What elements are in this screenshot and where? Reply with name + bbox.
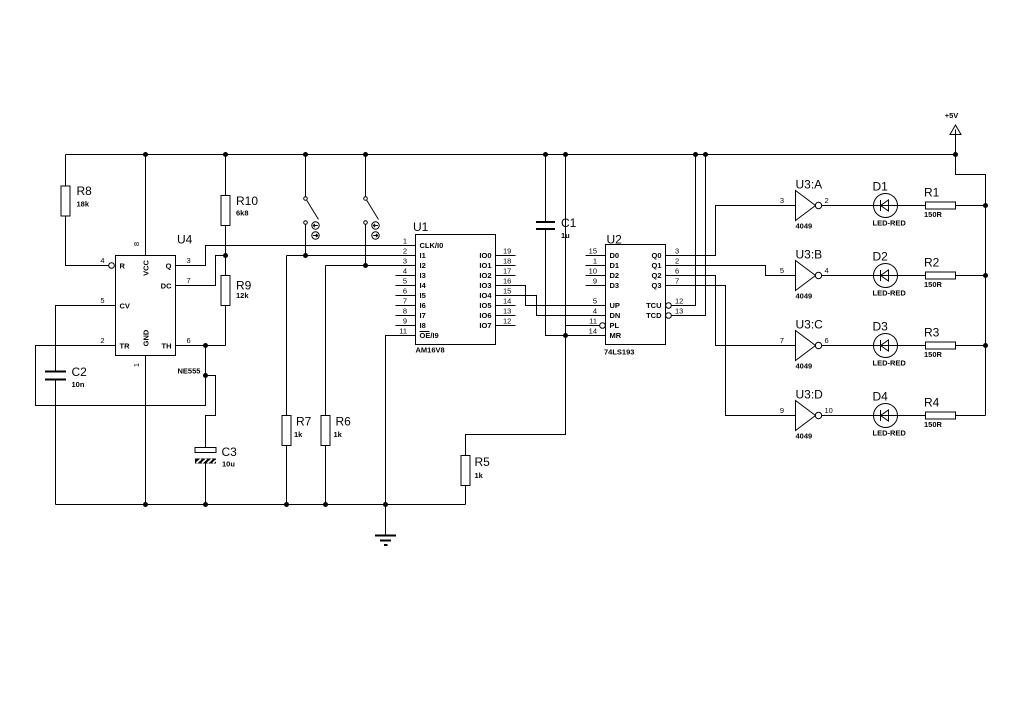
resistor R3 150R	[924, 326, 956, 360]
svg-text:3: 3	[780, 196, 784, 205]
junction	[203, 502, 208, 507]
switch SW2 top lead	[365, 155, 367, 197]
svg-text:6: 6	[403, 287, 407, 296]
svg-text:IO4: IO4	[479, 291, 492, 300]
svg-text:2: 2	[100, 336, 104, 345]
wire R4 to +5V column	[956, 415, 986, 417]
svg-text:R8: R8	[77, 184, 93, 198]
svg-text:PL: PL	[610, 321, 620, 330]
junction TH/TR/C3 node	[203, 373, 208, 378]
wire R10 top lead	[225, 155, 227, 196]
wire R10 bottom to node	[225, 226, 227, 276]
svg-text:LED-RED: LED-RED	[873, 429, 907, 438]
wire +5V to U2 PL	[566, 155, 600, 326]
svg-text:LED-RED: LED-RED	[873, 359, 907, 368]
wire D1 to R1	[898, 205, 926, 207]
svg-text:1k: 1k	[334, 430, 343, 439]
inverter U3:D 4049	[796, 388, 824, 441]
svg-text:5: 5	[593, 297, 597, 306]
wire SW2 bottom lead	[365, 224, 367, 265]
wire SW1 bottom lead	[305, 224, 307, 255]
svg-text:4: 4	[100, 256, 104, 265]
U4 reset pin inversion bubble	[109, 263, 115, 269]
ground	[375, 505, 396, 546]
svg-text:VCC: VCC	[142, 260, 151, 276]
U1 left pin numbers	[399, 237, 407, 336]
svg-text:Q1: Q1	[651, 261, 661, 270]
svg-text:D0: D0	[610, 251, 620, 260]
junction R10/R9/DC node	[223, 253, 228, 258]
switch SW2 actuator arrows	[372, 222, 379, 239]
svg-text:NE555: NE555	[178, 367, 201, 376]
svg-text:6k8: 6k8	[236, 209, 249, 218]
wire U4 DC to R10/R9 node	[176, 256, 226, 286]
wire I1 row to U1	[287, 255, 416, 257]
svg-text:4049: 4049	[796, 432, 813, 441]
svg-text:9: 9	[593, 277, 597, 286]
svg-text:10: 10	[589, 267, 597, 276]
svg-text:1k: 1k	[475, 471, 484, 480]
svg-text:12: 12	[675, 297, 683, 306]
resistor R7 1k	[282, 415, 312, 446]
svg-text:U4: U4	[177, 233, 193, 247]
svg-text:U3:B: U3:B	[796, 248, 823, 262]
svg-text:GND: GND	[142, 329, 151, 346]
junction ground node	[383, 502, 388, 507]
wire VCC pin 8 of U4	[145, 155, 147, 256]
svg-text:3: 3	[675, 247, 679, 256]
resistor R10 6k8	[221, 194, 258, 226]
wire D3 to R3	[898, 345, 926, 347]
U3:B pin numbers	[780, 266, 829, 275]
svg-text:IO2: IO2	[479, 271, 491, 280]
svg-text:R4: R4	[924, 396, 940, 410]
inverter U3:A 4049	[796, 178, 823, 231]
junction TH node	[203, 343, 208, 348]
svg-text:7: 7	[675, 277, 679, 286]
svg-text:IO7: IO7	[479, 321, 491, 330]
wire R7 bottom lead	[286, 446, 288, 505]
svg-text:I4: I4	[420, 281, 427, 290]
svg-text:7: 7	[187, 276, 191, 285]
junction	[983, 343, 988, 348]
capacitor C2 10n	[45, 365, 87, 389]
U3:C pin numbers	[780, 336, 829, 345]
wire R2 to +5V column	[956, 275, 986, 277]
svg-text:R10: R10	[236, 194, 258, 208]
junction	[363, 152, 368, 157]
wire R7 top lead	[286, 256, 288, 416]
svg-text:R1: R1	[924, 186, 940, 200]
U4 pin numbers	[100, 242, 190, 367]
wire R1 to +5V column	[956, 205, 986, 207]
wire U4 TH to R9 bottom	[176, 345, 226, 347]
svg-text:4049: 4049	[796, 222, 813, 231]
wire TH node down	[205, 346, 207, 376]
svg-text:12k: 12k	[236, 291, 249, 300]
svg-text:5: 5	[403, 277, 407, 286]
IC U1 AM16V8 body	[413, 220, 496, 355]
wire C2 bottom to ground rail	[55, 381, 57, 505]
svg-text:3: 3	[187, 256, 191, 265]
svg-text:14: 14	[503, 297, 511, 306]
U2 left pin numbers	[589, 247, 597, 336]
svg-text:I1: I1	[420, 251, 426, 260]
wire U2 Q0 to U3:A	[666, 206, 796, 256]
wire U3:C output to D3	[822, 345, 874, 347]
LED D1 LED-RED	[873, 180, 907, 228]
svg-text:R2: R2	[924, 256, 940, 270]
wire R8 to U4 reset pin	[66, 216, 109, 266]
svg-text:7: 7	[780, 336, 784, 345]
junction	[953, 152, 958, 157]
switch SW1 actuator arrows	[312, 222, 319, 239]
svg-text:LED-RED: LED-RED	[873, 289, 907, 298]
svg-text:TCU: TCU	[646, 301, 661, 310]
junction	[983, 203, 988, 208]
svg-text:7: 7	[403, 297, 407, 306]
svg-text:4: 4	[403, 267, 407, 276]
svg-text:IO5: IO5	[479, 301, 491, 310]
svg-text:D3: D3	[610, 281, 620, 290]
wire R6 top lead	[325, 266, 327, 416]
wire +5V feed to resistor column	[956, 155, 986, 416]
wire U1 IO3 to U2 UP	[496, 286, 606, 306]
svg-text:R: R	[120, 262, 126, 271]
wire U4 Q output to U1 CLK	[176, 246, 416, 266]
wire I2 row to U1	[326, 265, 416, 267]
wire ground rail	[56, 504, 466, 506]
junction	[363, 263, 368, 268]
inverter U3:C 4049	[796, 318, 824, 371]
svg-text:OE/I9: OE/I9	[420, 331, 439, 340]
svg-text:U3:C: U3:C	[796, 318, 824, 332]
svg-text:18: 18	[503, 257, 511, 266]
svg-text:11: 11	[399, 327, 407, 336]
svg-text:2: 2	[675, 257, 679, 266]
svg-text:10u: 10u	[222, 460, 235, 469]
junction	[693, 152, 698, 157]
junction MR node	[563, 333, 568, 338]
svg-text:R3: R3	[924, 326, 940, 340]
wire PL/MR vertical overlap	[565, 326, 567, 336]
svg-text:150R: 150R	[924, 210, 943, 219]
wire R8 top lead	[65, 155, 67, 187]
svg-text:D4: D4	[873, 390, 889, 404]
svg-text:I2: I2	[420, 261, 426, 270]
svg-text:CV: CV	[120, 302, 130, 311]
svg-text:U3:D: U3:D	[796, 388, 824, 402]
svg-text:U3:A: U3:A	[796, 178, 823, 192]
svg-text:Q: Q	[166, 262, 172, 271]
U2 right pin numbers	[675, 247, 683, 316]
svg-text:9: 9	[403, 317, 407, 326]
capacitor C1 1u	[536, 216, 577, 240]
svg-text:I8: I8	[420, 321, 426, 330]
svg-text:IO3: IO3	[479, 281, 491, 290]
svg-text:TH: TH	[162, 342, 172, 351]
resistor R1 150R	[924, 186, 956, 220]
junction	[983, 273, 988, 278]
wire U3:D output to D4	[822, 415, 874, 417]
wire U1 OE pin to ground	[386, 336, 416, 505]
U2 left pin stubs D0-D3	[586, 256, 606, 286]
U1 right pin numbers	[503, 247, 511, 326]
junction	[303, 253, 308, 258]
svg-text:13: 13	[675, 307, 683, 316]
svg-text:I3: I3	[420, 271, 426, 280]
svg-text:3: 3	[403, 257, 407, 266]
svg-text:17: 17	[503, 267, 511, 276]
resistor R2 150R	[924, 256, 956, 290]
svg-text:D1: D1	[873, 180, 889, 194]
wire C3 bottom to ground rail	[205, 464, 207, 505]
U4 pin names	[120, 260, 173, 351]
capacitor C3 10u polarized	[195, 445, 237, 469]
resistor R4 150R	[924, 396, 956, 430]
switch SW1	[304, 197, 319, 225]
svg-text:U1: U1	[413, 220, 429, 234]
svg-text:U2: U2	[607, 233, 623, 247]
junction	[323, 502, 328, 507]
svg-text:+5V: +5V	[945, 111, 959, 120]
svg-text:DN: DN	[610, 311, 621, 320]
svg-text:IO6: IO6	[479, 311, 491, 320]
svg-text:R6: R6	[336, 415, 352, 429]
svg-text:R5: R5	[475, 455, 491, 469]
svg-text:150R: 150R	[924, 420, 943, 429]
wire R3 to +5V column	[956, 345, 986, 347]
inverter U3:B 4049	[796, 248, 823, 301]
svg-text:1: 1	[403, 237, 407, 246]
svg-text:5: 5	[100, 296, 104, 305]
wire U2 Q3 to U3:D	[666, 286, 796, 416]
junction	[223, 152, 228, 157]
wire U3:A output to D1	[822, 205, 874, 207]
svg-text:I6: I6	[420, 301, 426, 310]
op-amp U4 NE555 timer body	[116, 233, 201, 376]
svg-text:10: 10	[825, 406, 833, 415]
svg-text:Q0: Q0	[651, 251, 661, 260]
svg-text:CLK/I0: CLK/I0	[420, 241, 444, 250]
wire D4 to R4	[898, 415, 926, 417]
svg-text:6: 6	[675, 267, 679, 276]
U1 left pin stubs	[396, 276, 416, 326]
svg-text:1: 1	[132, 363, 141, 367]
U3:D pin numbers	[780, 406, 833, 415]
junction	[284, 502, 289, 507]
svg-text:16: 16	[503, 277, 511, 286]
svg-text:150R: 150R	[924, 350, 943, 359]
svg-text:4049: 4049	[796, 292, 813, 301]
svg-text:D3: D3	[873, 320, 889, 334]
svg-text:1: 1	[593, 257, 597, 266]
svg-text:MR: MR	[610, 331, 622, 340]
wire U3:B output to D2	[822, 275, 874, 277]
U2 PL inversion bubble	[600, 323, 606, 329]
+5V power symbol	[945, 111, 961, 155]
svg-text:19: 19	[503, 247, 511, 256]
wire C1 bottom to U2 MR	[546, 229, 606, 336]
wire +5V top rail	[66, 154, 956, 156]
svg-text:D2: D2	[610, 271, 620, 280]
resistor R8 18k	[61, 184, 92, 216]
svg-text:TR: TR	[120, 342, 131, 351]
svg-text:6: 6	[187, 336, 191, 345]
svg-text:13: 13	[503, 307, 511, 316]
svg-text:4049: 4049	[796, 362, 813, 371]
wire TCU pull-up	[672, 155, 696, 306]
svg-text:14: 14	[589, 327, 597, 336]
U2 left pin names	[610, 251, 622, 340]
wire U2 Q1 to U3:B	[666, 266, 796, 276]
svg-text:4: 4	[593, 307, 597, 316]
junction	[303, 152, 308, 157]
junction	[563, 152, 568, 157]
svg-text:10n: 10n	[72, 380, 85, 389]
U2 TCD inversion bubble	[666, 313, 672, 319]
svg-text:C3: C3	[222, 445, 238, 459]
U1 right pin stubs	[496, 256, 516, 326]
svg-text:12: 12	[503, 317, 511, 326]
svg-text:D1: D1	[610, 261, 620, 270]
wire R5 bottom to ground rail	[465, 486, 467, 505]
wire U4 TR loop	[36, 346, 206, 406]
svg-text:18k: 18k	[77, 200, 90, 209]
svg-text:AM16V8: AM16V8	[416, 346, 445, 355]
junction	[143, 502, 148, 507]
U1 left pin names	[420, 241, 444, 340]
svg-text:I7: I7	[420, 311, 426, 320]
svg-text:150R: 150R	[924, 280, 943, 289]
wire U2 Q2 to U3:C	[666, 276, 796, 346]
wire TCD pull-up	[672, 155, 706, 316]
wire MR node to R5	[466, 336, 566, 456]
svg-text:D2: D2	[873, 250, 889, 264]
svg-text:IO0: IO0	[479, 251, 491, 260]
wire R6 bottom lead	[325, 446, 327, 505]
resistor R9 12k	[221, 276, 252, 306]
LED D3 LED-RED	[873, 320, 907, 368]
wire R9 bottom to TH	[225, 306, 227, 346]
resistor R6 1k	[321, 415, 351, 446]
svg-text:8: 8	[403, 307, 407, 316]
svg-text:DC: DC	[161, 282, 172, 291]
svg-text:IO1: IO1	[479, 261, 491, 270]
U2 TCU inversion bubble	[666, 303, 672, 309]
svg-text:15: 15	[503, 287, 511, 296]
svg-text:9: 9	[780, 406, 784, 415]
wire U4 CV to C2	[56, 306, 116, 372]
wire U1 IO4 to U2 DN	[496, 296, 606, 316]
junction	[543, 152, 548, 157]
svg-text:Q2: Q2	[651, 271, 661, 280]
svg-text:R7: R7	[296, 415, 312, 429]
svg-text:74LS193: 74LS193	[604, 348, 634, 357]
IC U2 74LS193 body	[604, 233, 666, 357]
svg-text:C2: C2	[72, 365, 88, 379]
U2 right pin names	[646, 251, 662, 320]
svg-text:2: 2	[825, 196, 829, 205]
svg-text:UP: UP	[610, 301, 620, 310]
U1 right pin names	[479, 251, 492, 330]
resistor R5 1k	[461, 455, 490, 486]
wire C1 top lead	[545, 155, 547, 223]
svg-text:2: 2	[403, 247, 407, 256]
wire node to C3 top (jog)	[206, 376, 216, 448]
svg-text:8: 8	[132, 242, 141, 246]
wire GND pin 1 of U4	[145, 356, 147, 505]
svg-text:6: 6	[825, 336, 829, 345]
svg-text:LED-RED: LED-RED	[873, 219, 907, 228]
svg-text:C1: C1	[561, 216, 577, 230]
LED D2 LED-RED	[873, 250, 907, 298]
LED D4 LED-RED	[873, 390, 907, 438]
svg-text:TCD: TCD	[646, 311, 662, 320]
switch SW2	[364, 197, 379, 225]
junction	[703, 152, 708, 157]
svg-text:Q3: Q3	[651, 281, 661, 290]
junction	[143, 152, 148, 157]
svg-text:1k: 1k	[294, 430, 303, 439]
U3:A pin numbers	[780, 196, 829, 205]
svg-text:I5: I5	[420, 291, 426, 300]
svg-text:5: 5	[780, 266, 784, 275]
switch SW1 top lead	[305, 155, 307, 197]
svg-text:15: 15	[589, 247, 597, 256]
wire D2 to R2	[898, 275, 926, 277]
svg-text:4: 4	[825, 266, 829, 275]
svg-text:11: 11	[589, 317, 597, 326]
